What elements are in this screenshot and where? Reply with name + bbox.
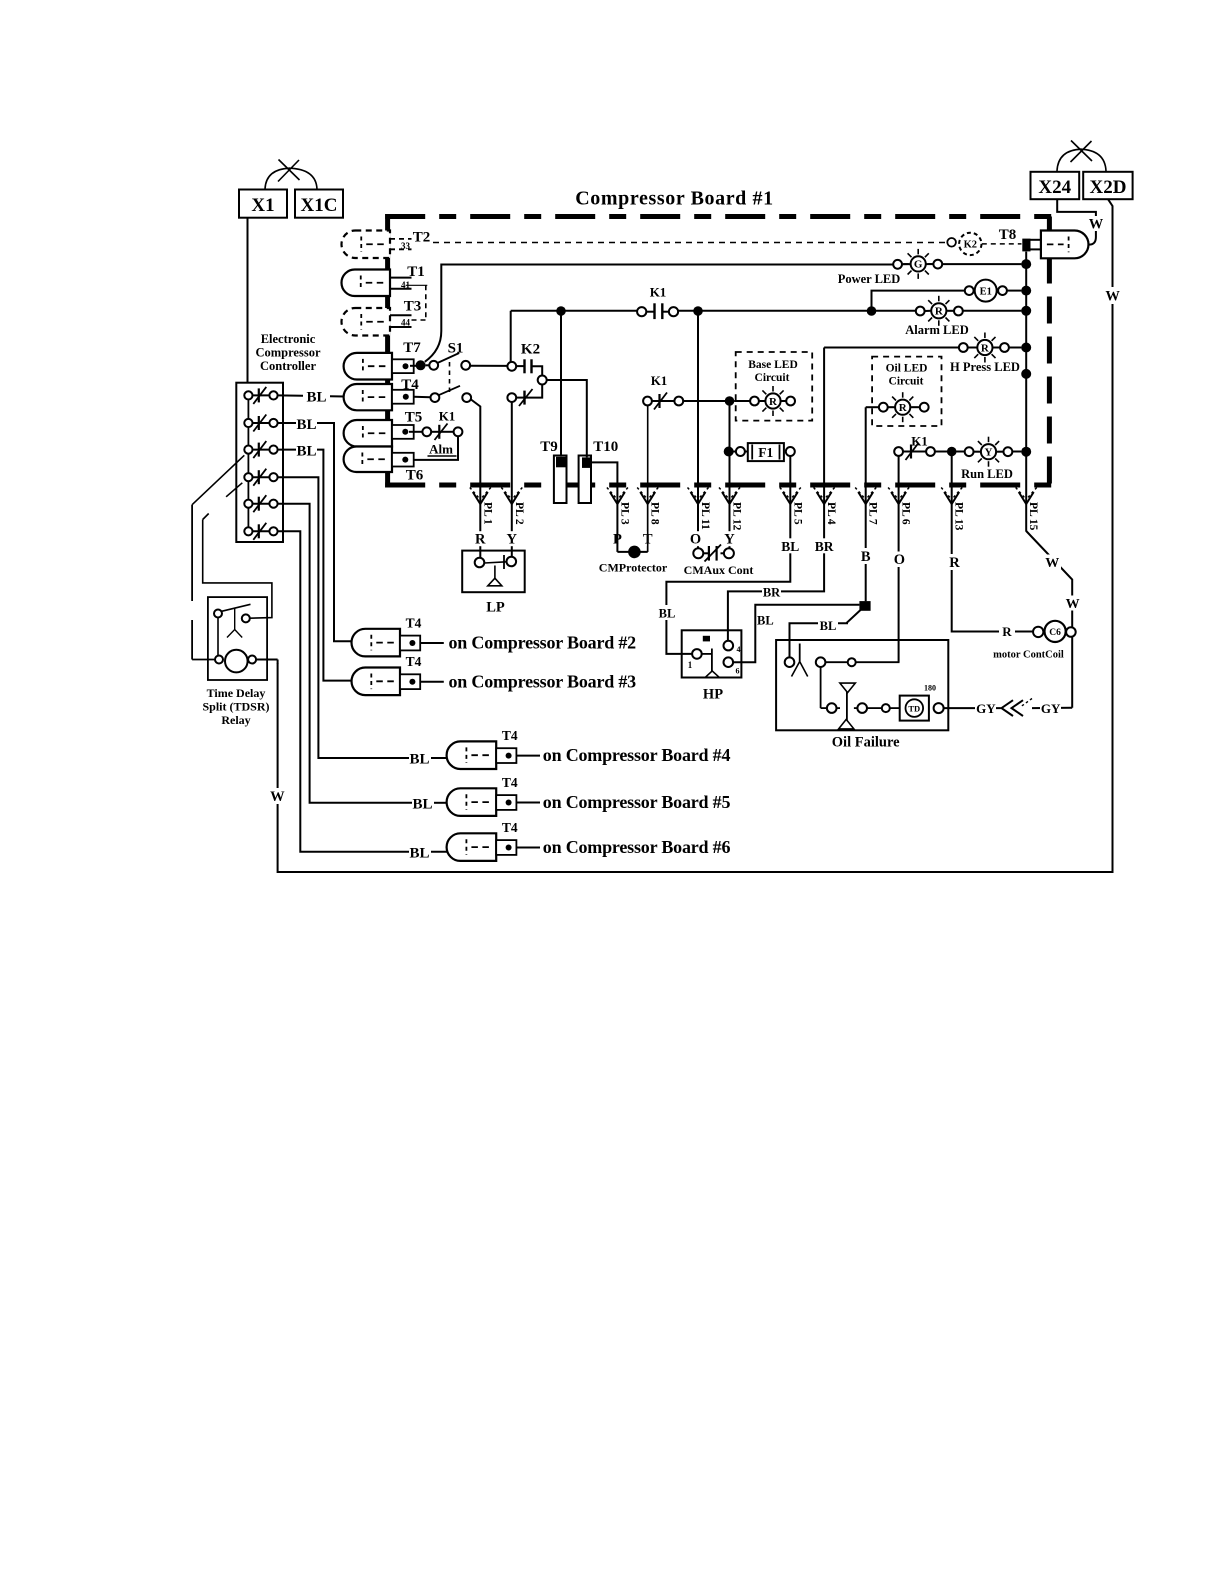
board exit PL5: [780, 488, 801, 500]
svg-text:Alm: Alm: [429, 442, 453, 457]
LED Alarm (R): [925, 310, 932, 312]
fuse F1: [734, 451, 737, 453]
wire H Press to PL4/HP (BR): [728, 348, 824, 641]
connector T4 on Compressor Board #6: [447, 833, 497, 861]
connector T4 on Compressor Board #5: [447, 788, 497, 816]
svg-text:F1: F1: [758, 445, 773, 460]
connector X1: [239, 190, 287, 218]
svg-text:CMAux Cont: CMAux Cont: [684, 563, 754, 577]
relay coil K2: [947, 238, 956, 247]
wire O into Oil Failure: [892, 552, 908, 568]
svg-text:BR: BR: [763, 586, 781, 600]
relay contact K1 (NC run): [903, 451, 926, 453]
wire controller contact chain: [247, 400, 249, 419]
svg-text:on Compressor Board #5: on Compressor Board #5: [543, 792, 731, 812]
LED H Press (R): [959, 343, 968, 352]
board exit PL13: [941, 488, 962, 500]
timer TD: [900, 696, 929, 721]
svg-text:Y: Y: [507, 532, 518, 548]
wire oil failure vertical: [820, 667, 822, 708]
wire K1 rail: [511, 310, 637, 312]
LED Oil (R): [866, 406, 879, 408]
board exit PL2: [501, 488, 522, 500]
LED Power (G): [893, 260, 902, 269]
connector T4 on Compressor Board #4: [447, 741, 497, 769]
svg-text:PL 12: PL 12: [731, 502, 743, 531]
svg-text:W: W: [1045, 556, 1059, 571]
svg-text:PL 3: PL 3: [618, 502, 630, 525]
svg-text:R: R: [1002, 624, 1012, 639]
svg-text:R: R: [935, 306, 944, 318]
svg-text:W: W: [1089, 217, 1104, 233]
board outline right: [1047, 217, 1052, 486]
controller terminal block: [236, 383, 283, 542]
svg-text:PL 1: PL 1: [481, 502, 493, 525]
wire color R PL1: [474, 531, 487, 546]
svg-text:K1: K1: [439, 409, 456, 424]
relay contact K1 (NC base): [652, 400, 675, 402]
svg-text:on Compressor Board #3: on Compressor Board #3: [449, 671, 637, 691]
wire Power LED row: [902, 263, 911, 265]
timer TD output: [934, 703, 944, 713]
junction bus E1: [1021, 286, 1031, 296]
svg-text:W: W: [1105, 289, 1120, 305]
wire controller to TDSR coil (diagonal): [192, 455, 244, 504]
svg-text:Circuit: Circuit: [755, 372, 790, 384]
connector T4 on Compressor Board #3: [352, 668, 400, 696]
svg-text:R: R: [475, 532, 486, 548]
junction bus hpress: [1021, 343, 1031, 353]
switch S1 pole 2: [414, 396, 431, 399]
junction base row: [725, 396, 735, 406]
CM aux contact: [693, 548, 703, 558]
wire controller to TDSR contact (diagonal): [226, 483, 242, 497]
junction bus run: [1021, 447, 1031, 457]
wire run junction to motor coil (R): [952, 452, 1034, 632]
svg-text:T4: T4: [406, 654, 422, 669]
wire color BL PL5: [779, 538, 801, 553]
svg-text:R: R: [949, 555, 960, 571]
svg-text:W: W: [1066, 597, 1080, 612]
wire K2 NC to PL2/LP: [511, 402, 513, 556]
Oil Failure box: [776, 640, 948, 730]
wire Oil LED to PL7 (B): [865, 407, 867, 601]
svg-text:PL 15: PL 15: [1027, 502, 1039, 531]
svg-text:LP: LP: [486, 600, 505, 616]
svg-text:motor ContCoil: motor ContCoil: [993, 650, 1064, 661]
wire X24 to T8 (W): [1057, 199, 1096, 244]
controller contact row 5: [253, 503, 270, 505]
svg-text:W: W: [270, 789, 285, 805]
wire B to HP pin6: [733, 605, 859, 663]
svg-text:BL: BL: [296, 417, 316, 433]
connector T4 on Compressor Board #2: [351, 629, 400, 657]
pressure switch HP contacts: [692, 649, 702, 659]
wire row1 BL to T4: [278, 394, 303, 396]
svg-text:GY: GY: [976, 701, 996, 716]
svg-text:T5: T5: [405, 410, 423, 426]
board exit PL8: [637, 488, 658, 500]
connector X24: [1031, 172, 1080, 199]
svg-text:T8: T8: [999, 227, 1017, 243]
wire Alm to T6: [414, 436, 458, 460]
junction bus spare: [1021, 369, 1031, 379]
lamp E1: [965, 286, 974, 295]
wire K1 base right to junction: [683, 400, 734, 402]
TDSR contact: [214, 610, 222, 618]
svg-text:BL: BL: [659, 607, 676, 621]
wire junction to T9: [560, 311, 562, 457]
wire TDSR coil to W loop: [256, 659, 278, 661]
terminal T5: [344, 420, 392, 447]
wire W PL15 to motor coil: [1026, 531, 1072, 708]
CM protector thermal dot: [628, 546, 641, 559]
svg-text:X2D: X2D: [1090, 177, 1127, 198]
relay contact K2 NC: [507, 393, 516, 402]
Alm contact: [409, 431, 422, 433]
svg-text:Oil LED: Oil LED: [886, 363, 928, 375]
switch S1 pole 1: [416, 360, 426, 370]
relay contact K2 common: [538, 376, 547, 385]
connector X1C: [295, 190, 343, 218]
svg-text:T2: T2: [413, 230, 431, 246]
wire color P PL3: [611, 531, 624, 546]
svg-text:PL 2: PL 2: [513, 502, 525, 525]
svg-text:1: 1: [688, 660, 693, 670]
switch S1 link: [449, 362, 451, 394]
svg-text:Oil Failure: Oil Failure: [832, 735, 900, 751]
bus wire T8 to PL15: [1025, 252, 1027, 532]
svg-text:Alarm LED: Alarm LED: [905, 323, 969, 337]
terminal T10: [579, 456, 591, 504]
Base LED Circuit box: [736, 352, 813, 421]
svg-text:on Compressor Board #4: on Compressor Board #4: [543, 745, 731, 765]
wire junction to CMAux (PL11): [697, 311, 699, 549]
terminal T6: [344, 447, 392, 473]
wire TDSR coil left: [192, 659, 215, 661]
svg-text:4: 4: [737, 645, 741, 654]
svg-text:T9: T9: [540, 439, 558, 455]
Oil LED Circuit box: [872, 357, 941, 426]
svg-text:T6: T6: [406, 468, 424, 484]
svg-text:C6: C6: [1049, 628, 1061, 638]
svg-text:Y: Y: [724, 532, 735, 548]
svg-text:R: R: [769, 396, 778, 408]
svg-text:X1C: X1C: [301, 195, 338, 216]
svg-text:K1: K1: [911, 434, 928, 449]
wire F1 to PL5/HP (BL): [666, 456, 790, 654]
controller contact row 2: [253, 422, 270, 424]
svg-text:T4: T4: [502, 820, 518, 835]
wire B to Oil Failure (BL): [790, 610, 861, 657]
svg-text:Controller: Controller: [260, 359, 316, 373]
wire X1 to controller: [247, 218, 249, 383]
svg-text:Run LED: Run LED: [961, 467, 1013, 481]
wire color B PL7: [859, 548, 872, 563]
svg-text:K1: K1: [650, 285, 667, 300]
svg-text:T3: T3: [404, 299, 422, 315]
svg-text:R: R: [981, 342, 990, 354]
TDSR coil: [225, 650, 248, 673]
junction bus power: [1021, 259, 1031, 269]
svg-text:on Compressor Board #2: on Compressor Board #2: [449, 633, 637, 653]
terminal T4: [344, 384, 392, 410]
terminal T9: [554, 456, 567, 504]
svg-text:Relay: Relay: [221, 713, 250, 727]
junction K1 rail / PL11: [693, 306, 703, 316]
wire base junction down to F1/PL12: [729, 401, 731, 549]
wire row2 BL to board2: [278, 422, 296, 424]
wire CM protector: [647, 487, 649, 552]
board outline bottom: [385, 483, 1052, 488]
svg-text:K1: K1: [651, 373, 668, 388]
svg-text:HP: HP: [703, 687, 723, 703]
X1-X1C mating symbol: [265, 168, 290, 189]
wire run row: [935, 451, 965, 453]
board exit PL3: [607, 488, 628, 500]
svg-text:X1: X1: [251, 195, 274, 216]
GY off-page arrow: [1002, 700, 1014, 716]
svg-text:K2: K2: [964, 240, 977, 251]
terminal T2: [342, 231, 391, 259]
svg-text:BL: BL: [757, 614, 774, 628]
board exit PL6: [888, 488, 909, 500]
svg-text:K2: K2: [521, 342, 540, 358]
svg-text:Compressor: Compressor: [255, 346, 320, 360]
svg-text:PL 6: PL 6: [900, 502, 912, 525]
board exit PL12: [719, 488, 740, 500]
terminal T7: [344, 353, 392, 380]
wire K2 common to T10: [547, 380, 587, 457]
pressure switch LP box: [462, 551, 525, 593]
terminal T3 link bracket: [425, 285, 427, 320]
svg-text:Split (TDSR): Split (TDSR): [202, 700, 269, 714]
wire row3 BL to board3: [278, 449, 296, 451]
svg-text:PL 11: PL 11: [699, 502, 711, 530]
wire T2 to K2 coil (dashed): [433, 242, 947, 244]
connector X2D: [1083, 172, 1132, 199]
board exit PL11: [688, 488, 709, 500]
svg-text:BL: BL: [409, 845, 429, 861]
junction F1: [724, 447, 734, 457]
wire E1 branch: [872, 291, 965, 311]
svg-text:CMProtector: CMProtector: [599, 561, 668, 575]
svg-text:H Press LED: H Press LED: [950, 360, 1020, 374]
svg-text:BL: BL: [409, 752, 429, 768]
svg-text:G: G: [914, 259, 923, 271]
svg-text:TD: TD: [908, 704, 920, 714]
svg-text:33: 33: [401, 241, 411, 251]
svg-text:Compressor Board #1: Compressor Board #1: [575, 188, 773, 210]
svg-text:O: O: [894, 552, 905, 568]
svg-text:BL: BL: [306, 390, 326, 406]
svg-text:Y: Y: [985, 447, 993, 459]
svg-text:Electronic: Electronic: [261, 332, 316, 346]
junction bus alarm: [1021, 306, 1031, 316]
terminal T3 (alternate): [342, 308, 391, 336]
svg-text:on Compressor Board #6: on Compressor Board #6: [543, 837, 731, 857]
board exit PL7: [855, 488, 876, 500]
LED Run (Y): [965, 447, 974, 456]
board exit PL4: [814, 488, 835, 500]
svg-text:PL 13: PL 13: [953, 502, 965, 531]
svg-text:O: O: [690, 532, 701, 548]
svg-text:BL: BL: [412, 796, 432, 812]
X24-X2D mating symbol: [1057, 149, 1082, 171]
wire row6 to board6: [278, 531, 409, 852]
wire S1 pole1 to K2: [470, 365, 507, 367]
wire row5 to board5: [278, 504, 412, 803]
svg-text:BL: BL: [296, 444, 316, 460]
board exit PL15: [1016, 488, 1037, 500]
svg-text:Power LED: Power LED: [838, 272, 901, 286]
svg-text:PL 8: PL 8: [649, 502, 661, 525]
wire color T PL8: [641, 531, 654, 546]
svg-text:PL 5: PL 5: [791, 502, 803, 525]
pressure switch LP contacts: [475, 558, 485, 568]
svg-text:T10: T10: [593, 439, 618, 455]
controller contact row 6: [253, 530, 270, 532]
svg-text:X24: X24: [1038, 177, 1071, 198]
junction run row: [947, 447, 957, 457]
svg-text:Circuit: Circuit: [889, 376, 924, 388]
svg-text:T4: T4: [502, 728, 518, 743]
wire K1 base left to PL8 (T): [647, 406, 649, 552]
board outline top: [385, 214, 1052, 219]
svg-text:6: 6: [736, 667, 740, 676]
board outline left: [385, 214, 390, 488]
svg-text:GY: GY: [1041, 701, 1061, 716]
oil failure sensor contact: [785, 657, 795, 667]
wire H Press LED row: [824, 347, 959, 349]
svg-text:T1: T1: [407, 264, 425, 280]
controller contact row 3: [253, 449, 270, 451]
svg-text:T7: T7: [403, 340, 421, 356]
svg-text:PL 4: PL 4: [825, 502, 837, 525]
svg-text:180: 180: [924, 684, 936, 693]
svg-text:BR: BR: [815, 539, 834, 554]
LED Base (R): [734, 400, 750, 402]
wire row4 to board4: [278, 477, 409, 758]
wire S1 pole2 to PL1/LP: [471, 400, 480, 558]
wire color BR PL4: [813, 538, 835, 553]
svg-text:PL 7: PL 7: [867, 502, 879, 525]
wire K1 run left to PL6 (O): [898, 456, 900, 662]
oil failure differential element: [821, 707, 827, 709]
wire color Y PL2: [505, 531, 518, 546]
wire TDSR contact link: [217, 618, 219, 656]
svg-text:44: 44: [401, 318, 411, 328]
controller contact row 4: [253, 476, 270, 478]
junction K1 rail / E1: [867, 306, 877, 316]
svg-text:R: R: [899, 402, 908, 414]
wire GY: [944, 707, 1001, 709]
wire color Y PL12: [723, 531, 736, 546]
wire W loop X2D-TDSR: [278, 199, 1113, 872]
wire K2 NO up to K1 rail: [510, 311, 512, 362]
relay contact K1 (NO): [646, 311, 654, 313]
svg-text:B: B: [861, 549, 871, 565]
svg-text:T4: T4: [406, 615, 422, 630]
TDSR relay box: [208, 597, 267, 680]
wire color O PL11: [689, 531, 702, 546]
svg-text:T4: T4: [401, 377, 419, 393]
relay contact K2 NO: [507, 362, 516, 371]
controller contact row 1: [253, 394, 270, 396]
pressure switch HP box: [682, 630, 742, 677]
wire S1 to power rail: [425, 265, 893, 362]
svg-text:BL: BL: [820, 619, 837, 633]
terminal T8: [1041, 231, 1089, 259]
board exit PL1: [470, 488, 491, 500]
motor contactor coil C6: [1033, 627, 1043, 637]
junction K1 rail / T9: [556, 306, 566, 316]
junction B square: [859, 601, 870, 611]
wire T10 to PL3: [591, 462, 618, 552]
terminal T1: [342, 270, 391, 297]
svg-text:BL: BL: [781, 539, 799, 554]
svg-text:T4: T4: [502, 775, 518, 790]
svg-text:E1: E1: [980, 286, 992, 297]
svg-text:Time Delay: Time Delay: [207, 686, 266, 700]
svg-text:Base LED: Base LED: [748, 359, 798, 371]
